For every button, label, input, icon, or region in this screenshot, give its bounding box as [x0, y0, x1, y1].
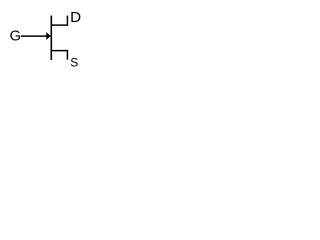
svg-text:D: D: [70, 9, 81, 26]
svg-text:G: G: [10, 28, 21, 44]
gate arrowhead pointing into channel: [46, 32, 51, 40]
wire gate lead from G to arrowhead: [21, 35, 47, 37]
wire source stub from channel bar: [51, 50, 67, 52]
svg-text:S: S: [70, 56, 78, 70]
wire drain vertical lead to D: [66, 16, 68, 26]
wire drain stub from channel bar: [51, 24, 67, 26]
transistor Q1 channel bar: [50, 16, 52, 61]
wire source vertical lead to S: [66, 50, 68, 60]
